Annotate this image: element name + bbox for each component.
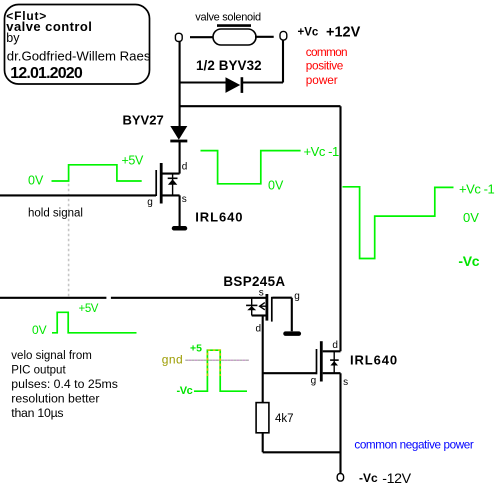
svg-text:+Vc -1: +Vc -1 [459,181,494,196]
svg-text:12.01.2020: 12.01.2020 [10,65,83,82]
svg-text:+12V: +12V [326,24,361,40]
svg-text:common negative power: common negative power [354,439,473,452]
svg-text:PIC output: PIC output [11,364,66,376]
svg-text:+5V: +5V [122,153,144,167]
svg-text:g: g [147,197,153,208]
svg-text:pulses: 0.4 to 25ms: pulses: 0.4 to 25ms [11,377,118,391]
svg-text:valve solenoid: valve solenoid [195,11,261,23]
svg-text:+Vc: +Vc [298,27,319,39]
svg-text:positive: positive [306,59,344,73]
svg-text:-Vc: -Vc [359,471,378,485]
svg-text:1/2 BYV32: 1/2 BYV32 [196,58,262,73]
svg-text:+5V: +5V [79,303,99,315]
svg-text:common: common [306,45,347,59]
svg-text:BSP245A: BSP245A [223,274,285,289]
svg-text:resolution better: resolution better [11,391,99,405]
svg-text:s: s [343,377,348,388]
svg-text:d: d [332,340,338,351]
svg-text:g: g [294,291,300,302]
svg-text:0V: 0V [268,178,284,192]
svg-text:power: power [306,73,338,87]
svg-text:d: d [182,161,188,172]
svg-text:-12V: -12V [382,471,411,487]
svg-text:than 10µs: than 10µs [11,406,63,420]
svg-text:0V: 0V [32,323,47,337]
svg-text:0V: 0V [463,210,479,225]
svg-text:s: s [182,194,187,205]
svg-text:d: d [256,324,262,335]
svg-text:4k7: 4k7 [275,413,294,425]
svg-text:0V: 0V [28,173,44,187]
svg-text:by: by [6,31,20,45]
svg-text:-Vc: -Vc [458,253,479,269]
svg-text:-Vc: -Vc [177,385,193,397]
svg-text:+Vc -1: +Vc -1 [304,144,339,159]
svg-text:g: g [311,376,317,387]
svg-text:velo signal from: velo signal from [11,350,92,362]
svg-text:dr.Godfried-Willem Raes: dr.Godfried-Willem Raes [7,49,151,64]
svg-text:s: s [259,288,264,299]
svg-text:BYV27: BYV27 [123,113,164,128]
svg-text:hold signal: hold signal [28,208,83,220]
svg-text:gnd: gnd [162,352,183,366]
svg-text:+5: +5 [190,342,202,354]
svg-text:IRL640: IRL640 [350,352,398,367]
svg-text:IRL640: IRL640 [195,209,243,224]
